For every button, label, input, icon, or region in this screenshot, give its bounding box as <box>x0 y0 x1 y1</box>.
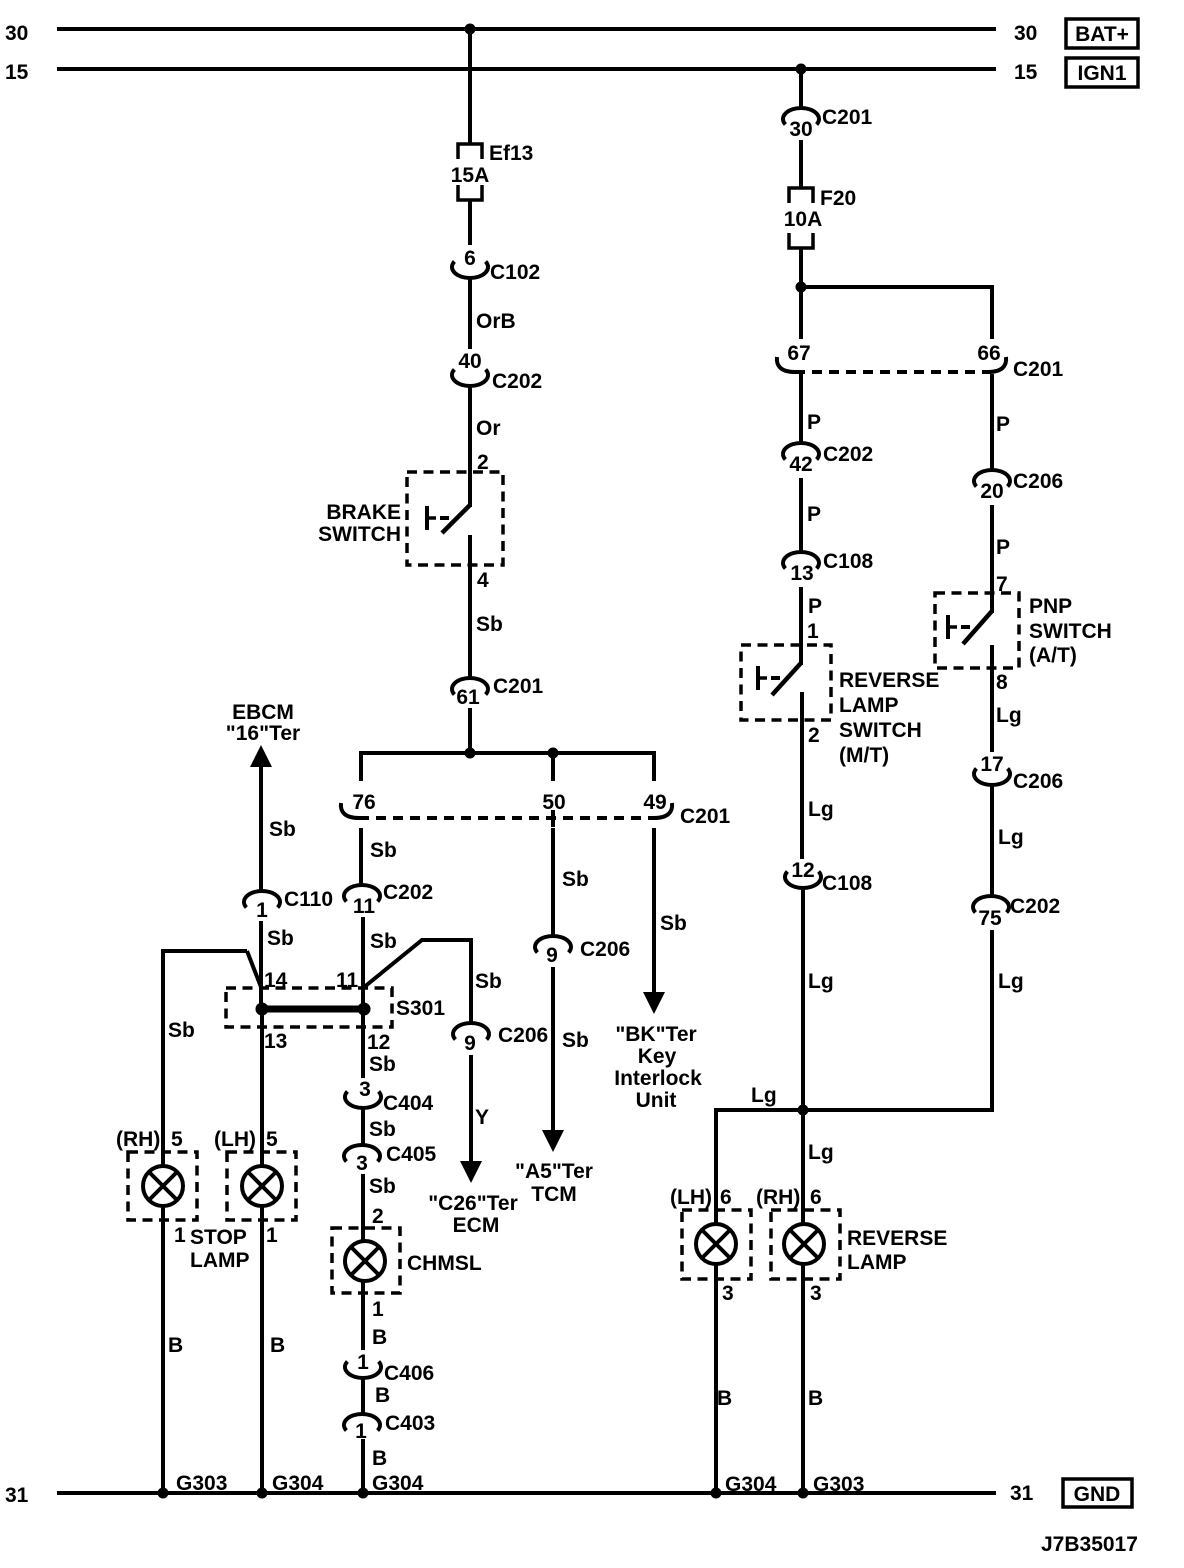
svg-text:G303: G303 <box>176 1472 227 1495</box>
svg-text:9: 9 <box>546 944 558 967</box>
wire RH reverse lamp to ground <box>803 1264 823 1493</box>
wire Sb 76 to C202-11 <box>361 828 397 885</box>
wire B C403 to ground <box>363 1439 387 1493</box>
reverse lamp node <box>714 1084 992 1116</box>
svg-text:REVERSE: REVERSE <box>847 1227 947 1250</box>
svg-text:20: 20 <box>980 480 1003 503</box>
svg-text:Unit: Unit <box>636 1089 677 1112</box>
ground G303 (RH reverse) <box>798 1473 865 1499</box>
wire Lg C206-17 to C202-75 <box>992 785 1024 896</box>
svg-text:1: 1 <box>807 620 819 643</box>
svg-text:C110: C110 <box>284 888 333 911</box>
wire CHMSL to C406 <box>363 1281 387 1350</box>
svg-text:Sb: Sb <box>267 927 294 950</box>
svg-text:B: B <box>168 1334 183 1357</box>
svg-text:Sb: Sb <box>370 839 397 862</box>
label 15 left <box>5 61 29 84</box>
svg-text:66: 66 <box>977 342 1000 365</box>
svg-text:"A5"Ter: "A5"Ter <box>515 1160 593 1183</box>
svg-text:Lg: Lg <box>751 1084 777 1107</box>
connector C102 pin 6 <box>452 247 540 284</box>
svg-text:15A: 15A <box>451 164 490 187</box>
wire LH reverse lamp to ground <box>716 1264 734 1493</box>
svg-text:61: 61 <box>456 686 480 709</box>
svg-text:P: P <box>808 595 822 618</box>
wire Lg node to RH reverse lamp <box>803 1110 834 1224</box>
svg-text:13: 13 <box>264 1030 287 1053</box>
wire drop to pin49 <box>652 751 656 781</box>
svg-text:Sb: Sb <box>369 1175 396 1198</box>
svg-text:ECM: ECM <box>453 1214 500 1237</box>
svg-text:C403: C403 <box>385 1412 435 1435</box>
wire bus30 to fuse Ef13 <box>468 29 472 144</box>
svg-text:67: 67 <box>787 342 810 365</box>
svg-text:STOP: STOP <box>190 1226 247 1249</box>
svg-text:P: P <box>996 536 1010 559</box>
svg-text:C202: C202 <box>1010 895 1060 918</box>
wire pin4 Sb to C201 <box>470 535 503 678</box>
wire drop to pin50 <box>551 751 555 781</box>
CHMSL (dashed box) <box>332 1228 482 1293</box>
svg-text:14: 14 <box>264 969 288 992</box>
svg-text:(RH): (RH) <box>116 1128 160 1151</box>
label 31 right <box>1010 1482 1034 1505</box>
svg-text:C201: C201 <box>822 106 873 129</box>
svg-text:Sb: Sb <box>562 1029 589 1052</box>
svg-text:B: B <box>375 1384 390 1407</box>
reverse lamp RH bulb <box>784 1224 824 1264</box>
svg-text:C206: C206 <box>1013 470 1063 493</box>
svg-text:(LH): (LH) <box>214 1128 256 1151</box>
svg-text:11: 11 <box>353 895 376 918</box>
key interlock terminal label <box>614 1023 702 1112</box>
svg-text:1: 1 <box>357 1351 369 1374</box>
wire Lg C202-75 down <box>992 930 1024 1112</box>
svg-text:3: 3 <box>359 1078 371 1101</box>
wire B C406 to C403 <box>363 1378 390 1414</box>
svg-text:2: 2 <box>372 1205 384 1228</box>
ground G304 (LH stop) <box>257 1472 324 1499</box>
ground G304 (CHMSL) <box>358 1472 424 1499</box>
net 31 ground bus <box>57 1491 996 1495</box>
svg-text:Y: Y <box>475 1106 489 1129</box>
svg-text:3: 3 <box>810 1282 822 1305</box>
brake switch S (dashed box) <box>407 472 503 565</box>
svg-text:40: 40 <box>458 350 481 373</box>
wire Sb to EBCM arrow <box>250 745 296 891</box>
svg-text:P: P <box>807 503 821 526</box>
net 15 bus (IGN1) <box>57 67 996 71</box>
svg-text:30: 30 <box>1014 22 1037 45</box>
ECM terminal label <box>428 1192 518 1237</box>
wire Sb C404 to C405 <box>363 1108 396 1145</box>
svg-text:Or: Or <box>476 417 501 440</box>
wire Y to ECM arrow <box>460 1055 489 1183</box>
svg-text:BRAKE: BRAKE <box>326 501 401 524</box>
svg-text:11: 11 <box>336 969 359 992</box>
svg-text:GND: GND <box>1074 1483 1121 1506</box>
svg-text:10A: 10A <box>784 208 823 231</box>
svg-text:Sb: Sb <box>269 818 296 841</box>
svg-text:B: B <box>372 1326 387 1349</box>
svg-text:30: 30 <box>789 118 812 141</box>
svg-text:5: 5 <box>266 1128 278 1151</box>
wire C201-30 to fuse F20 <box>799 140 803 188</box>
wire diagonal S301-11 to ECM branch <box>363 940 502 993</box>
svg-text:75: 75 <box>978 907 1002 930</box>
wire RH stop branch horizontal <box>161 949 247 953</box>
svg-text:76: 76 <box>352 791 375 814</box>
svg-text:SWITCH: SWITCH <box>318 523 401 546</box>
LH stop lamp pin 5 label <box>214 1128 278 1151</box>
svg-text:6: 6 <box>720 1186 732 1209</box>
wire Sb C202-11 to S301 <box>363 917 397 1009</box>
wire Sb to TCM arrow <box>542 967 589 1152</box>
svg-text:BAT+: BAT+ <box>1075 23 1129 46</box>
REVERSE LAMP label <box>847 1227 947 1274</box>
svg-text:6: 6 <box>810 1186 822 1209</box>
connector C202 pin 40 <box>452 350 542 393</box>
svg-text:REVERSE: REVERSE <box>839 669 939 692</box>
wire P C206-20 to PNP switch <box>992 505 1010 613</box>
stop lamp RH bulb <box>143 1166 183 1206</box>
svg-text:Lg: Lg <box>996 704 1022 727</box>
svg-text:C201: C201 <box>493 675 544 698</box>
svg-text:1: 1 <box>174 1224 186 1247</box>
svg-text:B: B <box>717 1387 732 1410</box>
splice S301 (dashed box) <box>226 988 445 1027</box>
svg-text:G304: G304 <box>372 1472 424 1495</box>
svg-text:G303: G303 <box>813 1473 864 1496</box>
svg-text:LAMP: LAMP <box>190 1249 250 1272</box>
svg-text:(LH): (LH) <box>670 1186 712 1209</box>
svg-text:J7B35017: J7B35017 <box>1041 1533 1138 1556</box>
svg-text:1: 1 <box>266 1224 278 1247</box>
S301 pin labels <box>264 969 390 1054</box>
svg-text:13: 13 <box>790 562 813 585</box>
svg-text:C206: C206 <box>498 1024 548 1047</box>
connector C108 pin 12 <box>785 859 873 895</box>
svg-text:C108: C108 <box>823 550 874 573</box>
CHMSL bulb <box>345 1241 385 1281</box>
svg-text:49: 49 <box>643 791 666 814</box>
svg-text:"BK"Ter: "BK"Ter <box>615 1023 696 1046</box>
svg-text:Sb: Sb <box>168 1019 195 1042</box>
svg-text:IGN1: IGN1 <box>1077 62 1126 85</box>
connector C404 pin 3 <box>345 1078 434 1115</box>
brake switch contact <box>427 505 470 533</box>
GND terminal box <box>1063 1479 1132 1507</box>
svg-text:30: 30 <box>5 22 28 45</box>
svg-text:Sb: Sb <box>370 930 397 953</box>
wire P C108-13 to reverse switch <box>801 587 822 665</box>
svg-text:3: 3 <box>722 1282 734 1305</box>
PNP switch label <box>1029 595 1112 667</box>
svg-text:F20: F20 <box>820 187 856 210</box>
wire bus15 to C201-30 <box>799 69 803 108</box>
RH reverse lamp pin 6 label <box>756 1186 822 1209</box>
reverse lamp LH bulb <box>696 1224 736 1264</box>
svg-text:Interlock: Interlock <box>614 1067 702 1090</box>
svg-text:4: 4 <box>477 569 489 592</box>
PNP switch contact <box>948 611 992 644</box>
svg-text:15: 15 <box>5 61 29 84</box>
node M/T-A/T split <box>796 282 993 293</box>
svg-text:17: 17 <box>980 753 1003 776</box>
svg-text:S301: S301 <box>396 997 445 1020</box>
BAT+ terminal box <box>1066 19 1138 48</box>
wire C201-61 to junction <box>468 708 472 755</box>
svg-text:Lg: Lg <box>808 970 834 993</box>
wire Lg to LH reverse lamp <box>714 1108 718 1224</box>
label 30 right <box>1014 22 1037 45</box>
LH reverse lamp pin 6 label <box>670 1186 732 1209</box>
brake switch label <box>318 501 401 546</box>
svg-text:C206: C206 <box>580 938 630 961</box>
wire fuse F20 to node <box>799 248 803 339</box>
wire Sb 49 to key interlock arrow <box>643 828 687 1014</box>
svg-text:31: 31 <box>5 1484 29 1507</box>
svg-text:3: 3 <box>356 1152 368 1175</box>
svg-text:1: 1 <box>256 899 268 922</box>
connector C406 pin 1 <box>345 1351 434 1385</box>
svg-text:(M/T): (M/T) <box>839 744 889 767</box>
svg-text:LAMP: LAMP <box>839 694 899 717</box>
svg-text:Sb: Sb <box>475 970 502 993</box>
connector C110 pin 1 <box>244 888 333 922</box>
svg-text:31: 31 <box>1010 1482 1034 1505</box>
svg-text:Sb: Sb <box>369 1053 396 1076</box>
svg-text:C206: C206 <box>1013 770 1063 793</box>
wire P 67 to C202-42 <box>801 374 821 443</box>
svg-text:PNP: PNP <box>1029 595 1072 618</box>
svg-text:P: P <box>996 413 1010 436</box>
RH stop lamp pin 5 label <box>116 1128 183 1151</box>
net 30 bus (BAT+) <box>57 27 996 31</box>
svg-text:8: 8 <box>996 671 1008 694</box>
PNP switch (dashed box) <box>935 593 1019 668</box>
connector C206 pin 9 (TCM branch) <box>535 936 630 967</box>
svg-text:1: 1 <box>372 1298 384 1321</box>
wire Lg switch to C108-12 <box>802 692 834 859</box>
svg-text:CHMSL: CHMSL <box>407 1252 482 1275</box>
drawing number J7B35017 <box>1041 1533 1138 1556</box>
svg-text:G304: G304 <box>725 1473 777 1496</box>
svg-text:(A/T): (A/T) <box>1029 644 1077 667</box>
connector C206 pin 20 <box>974 470 1063 503</box>
wire Lg C108-12 to reverse node <box>803 888 834 1110</box>
wire Or to brake switch <box>470 386 501 507</box>
svg-text:C404: C404 <box>383 1092 434 1115</box>
IGN1 terminal box <box>1066 58 1138 87</box>
reverse lamp RH (dashed box) <box>771 1210 840 1279</box>
wire RH stop lamp to ground <box>163 1206 186 1493</box>
svg-text:B: B <box>808 1387 823 1410</box>
reverse lamp switch (dashed box) <box>741 645 831 720</box>
svg-text:C202: C202 <box>823 443 873 466</box>
svg-text:G304: G304 <box>272 1472 324 1495</box>
svg-text:C406: C406 <box>384 1362 434 1385</box>
fuse F20 10A <box>784 187 856 248</box>
svg-text:(RH): (RH) <box>756 1186 800 1209</box>
svg-text:12: 12 <box>791 859 814 882</box>
STOP LAMP label <box>190 1226 250 1272</box>
label 31 left <box>5 1484 29 1507</box>
svg-text:"C26"Ter: "C26"Ter <box>428 1192 518 1215</box>
wire down to C206-9 (ECM) <box>469 938 473 1023</box>
svg-text:SWITCH: SWITCH <box>839 719 922 742</box>
svg-text:SWITCH: SWITCH <box>1029 620 1112 643</box>
wire P C202-42 to C108-13 <box>801 478 821 552</box>
wire OrB <box>470 278 516 349</box>
connector C201 pins 76/50/49 <box>341 791 731 828</box>
svg-text:5: 5 <box>171 1128 183 1151</box>
wire S301-13 to LH stop lamp <box>260 1009 264 1166</box>
ground G303 (RH stop) <box>158 1472 228 1499</box>
svg-text:C201: C201 <box>680 805 731 828</box>
svg-text:2: 2 <box>808 724 820 747</box>
stop lamp RH (dashed box) <box>128 1152 197 1220</box>
fuse Ef13 15A <box>451 142 534 200</box>
label 30 left <box>5 22 28 45</box>
connector C206 pin 17 <box>974 753 1063 793</box>
wire node to C201-66 <box>990 285 994 339</box>
reverse lamp switch contact <box>758 663 801 695</box>
connector C405 pin 3 <box>344 1143 437 1175</box>
svg-text:OrB: OrB <box>476 310 516 333</box>
svg-text:12: 12 <box>367 1031 390 1054</box>
svg-text:C202: C202 <box>492 370 542 393</box>
wire Sb to RH stop lamp <box>163 949 195 1166</box>
svg-text:Key: Key <box>638 1045 677 1068</box>
reverse lamp switch label <box>839 669 939 767</box>
svg-text:Lg: Lg <box>808 1141 834 1164</box>
svg-text:"16"Ter: "16"Ter <box>226 722 300 745</box>
svg-text:15: 15 <box>1014 61 1038 84</box>
wire drop to pin76 <box>359 751 363 781</box>
EBCM terminal label <box>226 701 300 745</box>
connector C202 pin 42 <box>783 443 873 476</box>
connector C206 pin 9 (ECM branch) <box>453 1023 548 1055</box>
wire Lg PNP to C206-17 <box>992 645 1022 752</box>
wire P 66 to C206-20 <box>992 374 1010 470</box>
svg-text:EBCM: EBCM <box>232 701 294 724</box>
connector C201 pin 61 <box>452 675 544 709</box>
svg-text:Sb: Sb <box>369 1118 396 1141</box>
stop lamp distribution node <box>359 748 656 759</box>
stop lamp LH (dashed box) <box>227 1152 296 1220</box>
wire diagonal to S301-14 <box>247 951 261 987</box>
reverse lamp LH (dashed box) <box>682 1210 751 1279</box>
svg-text:B: B <box>372 1447 387 1470</box>
svg-text:42: 42 <box>789 453 812 476</box>
junction bus30/brake feed <box>465 24 476 35</box>
S301 bus bar <box>256 1003 371 1016</box>
wire Sb C405 to CHMSL <box>363 1174 396 1241</box>
label 15 right <box>1014 61 1038 84</box>
svg-text:9: 9 <box>464 1032 476 1055</box>
stop lamp LH bulb <box>242 1166 282 1206</box>
wire LH stop lamp to ground <box>262 1206 285 1493</box>
svg-text:Sb: Sb <box>660 912 687 935</box>
connector C202 pin 75 <box>973 895 1060 930</box>
svg-text:P: P <box>807 411 821 434</box>
svg-text:Lg: Lg <box>998 826 1024 849</box>
svg-text:C102: C102 <box>490 261 540 284</box>
svg-text:Lg: Lg <box>808 798 834 821</box>
svg-text:C405: C405 <box>386 1143 437 1166</box>
junction bus15/ign feed <box>796 64 807 75</box>
svg-text:Sb: Sb <box>562 868 589 891</box>
svg-text:C108: C108 <box>822 872 873 895</box>
svg-text:Sb: Sb <box>476 613 503 636</box>
wire fuse to C102 <box>468 200 472 245</box>
connector C201 pin 30 <box>783 106 873 141</box>
connector C108 pin 13 <box>783 550 874 585</box>
svg-text:LAMP: LAMP <box>847 1251 907 1274</box>
svg-text:TCM: TCM <box>531 1183 577 1206</box>
svg-text:6: 6 <box>464 247 476 270</box>
wire Sb S301-12 to C404 <box>363 1009 396 1078</box>
connector C202 pin 11 <box>344 881 433 918</box>
svg-text:B: B <box>270 1334 285 1357</box>
svg-text:C201: C201 <box>1013 358 1064 381</box>
wire Sb 50 to C206-9 <box>553 828 589 936</box>
connector C403 pin 1 <box>344 1412 435 1443</box>
svg-text:C202: C202 <box>383 881 433 904</box>
TCM terminal label <box>515 1160 593 1206</box>
ground G304 (LH reverse) <box>711 1473 777 1499</box>
svg-text:Ef13: Ef13 <box>489 142 533 165</box>
svg-text:Lg: Lg <box>998 970 1024 993</box>
wire Sb C110 to S301-14 <box>261 921 294 1009</box>
connector C201 pins 67/66 <box>777 342 1064 381</box>
